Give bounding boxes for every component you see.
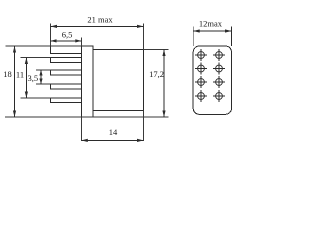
svg-text:12max: 12max <box>199 19 223 29</box>
svg-text:3,5: 3,5 <box>27 73 38 83</box>
extension body right up/down (21 max right + 14 right) <box>143 24 145 50</box>
dimension 14 <box>81 139 143 142</box>
dimension 11 <box>25 58 28 99</box>
extension body top right (17,2 top ext) <box>144 49 169 51</box>
extension 6,5 right above flange <box>80 38 82 47</box>
dimension 12max <box>193 27 231 47</box>
dimension 18 <box>13 46 16 117</box>
extension 11 top (pin2 top) <box>21 57 51 59</box>
pin 5 <box>51 98 82 103</box>
pin 2 <box>51 58 82 63</box>
svg-text:21 max: 21 max <box>87 15 113 25</box>
dimension 21 max <box>51 25 144 28</box>
svg-text:6,5: 6,5 <box>62 29 73 39</box>
pin 1 <box>51 46 82 54</box>
extension 14 left below flange <box>80 117 82 141</box>
pin A4 <box>195 90 207 102</box>
svg-text:11: 11 <box>16 69 24 79</box>
pin 4 <box>51 84 82 89</box>
svg-text:14: 14 <box>109 127 118 137</box>
pin 3 <box>51 70 82 75</box>
pin A2 <box>195 63 207 75</box>
pin A1 <box>195 49 207 61</box>
dimension 3,5 <box>39 70 42 84</box>
body side view <box>93 50 144 111</box>
pin A3 <box>195 76 207 88</box>
pin B2 <box>213 63 225 75</box>
body front view <box>193 46 231 114</box>
extension line bottom (flange bottom + 17,2 ext) <box>5 116 169 118</box>
pin B3 <box>213 76 225 88</box>
pin B4 <box>213 90 225 102</box>
extension pin tips up (21 max left) <box>50 24 52 47</box>
svg-text:18: 18 <box>3 69 12 79</box>
extension 3,5 top (pin3 top) <box>36 69 51 71</box>
extension 11 bottom (pin5 top) <box>21 97 51 99</box>
flange <box>81 46 93 117</box>
dimension 17,2 <box>162 50 165 118</box>
extension line top flange (for 18) <box>5 45 81 47</box>
dimension 6,5 <box>51 39 82 42</box>
pin B1 <box>213 49 225 61</box>
extension 3,5 bottom (pin4 top) <box>36 83 51 85</box>
svg-text:17,2: 17,2 <box>149 69 164 79</box>
pins front view <box>195 49 225 102</box>
